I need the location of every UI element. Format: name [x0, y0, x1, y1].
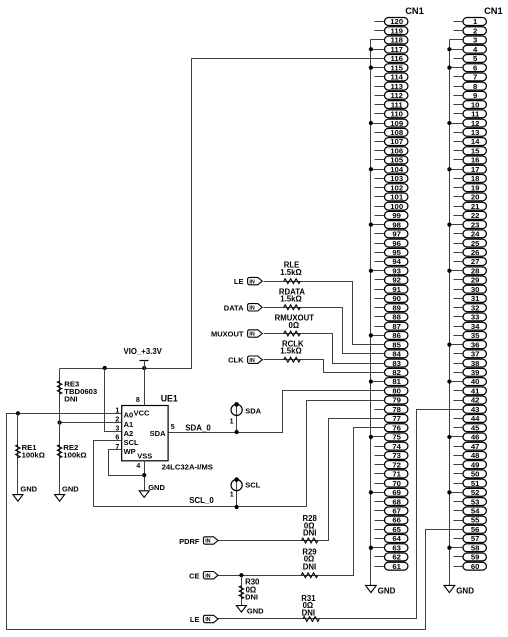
- svg-text:1: 1: [230, 492, 234, 499]
- svg-text:38: 38: [471, 359, 480, 368]
- svg-text:SCL: SCL: [124, 438, 139, 447]
- svg-text:100kΩ: 100kΩ: [22, 451, 45, 460]
- svg-text:CN1: CN1: [405, 6, 424, 16]
- svg-text:96: 96: [392, 239, 401, 248]
- svg-text:79: 79: [392, 396, 401, 405]
- svg-text:IN: IN: [205, 539, 210, 545]
- svg-text:MUXOUT: MUXOUT: [211, 329, 244, 338]
- svg-text:82: 82: [392, 368, 401, 377]
- svg-text:A2: A2: [124, 429, 134, 438]
- svg-text:UE1: UE1: [161, 393, 178, 403]
- svg-text:97: 97: [392, 230, 401, 239]
- svg-text:109: 109: [390, 119, 403, 128]
- svg-text:VIO_+3.3V: VIO_+3.3V: [124, 347, 163, 356]
- svg-text:2: 2: [473, 26, 477, 35]
- svg-text:24LC32A-I/MS: 24LC32A-I/MS: [162, 463, 213, 472]
- svg-text:DNI: DNI: [303, 529, 316, 538]
- svg-text:10: 10: [471, 100, 480, 109]
- svg-text:GND: GND: [247, 606, 264, 615]
- svg-text:98: 98: [392, 220, 401, 229]
- svg-text:6: 6: [473, 63, 477, 72]
- svg-text:64: 64: [392, 534, 401, 543]
- svg-text:23: 23: [471, 220, 480, 229]
- svg-text:112: 112: [390, 91, 402, 100]
- svg-text:78: 78: [392, 405, 401, 414]
- svg-text:50: 50: [471, 470, 480, 479]
- svg-text:90: 90: [392, 294, 401, 303]
- svg-text:84: 84: [392, 350, 401, 359]
- svg-text:72: 72: [392, 460, 401, 469]
- svg-text:IN: IN: [249, 279, 254, 285]
- svg-text:29: 29: [471, 276, 480, 285]
- svg-text:4: 4: [473, 45, 478, 54]
- svg-text:56: 56: [471, 525, 480, 534]
- svg-text:14: 14: [471, 137, 480, 146]
- svg-text:111: 111: [391, 100, 404, 109]
- svg-text:CN1: CN1: [484, 6, 503, 16]
- svg-text:LE: LE: [190, 615, 200, 624]
- svg-text:DNI: DNI: [302, 609, 315, 618]
- svg-text:34: 34: [471, 322, 480, 331]
- svg-text:89: 89: [392, 303, 401, 312]
- svg-text:1.5kΩ: 1.5kΩ: [280, 268, 301, 277]
- svg-text:66: 66: [392, 516, 401, 525]
- svg-text:55: 55: [471, 516, 480, 525]
- svg-text:85: 85: [392, 340, 401, 349]
- svg-text:104: 104: [390, 165, 404, 174]
- svg-text:114: 114: [390, 73, 403, 82]
- svg-text:113: 113: [390, 82, 402, 91]
- svg-text:A0: A0: [124, 411, 134, 420]
- svg-text:11: 11: [471, 110, 480, 119]
- svg-text:115: 115: [390, 63, 403, 72]
- svg-text:CE: CE: [189, 571, 199, 580]
- svg-text:GND: GND: [62, 485, 79, 494]
- svg-text:IN: IN: [249, 358, 254, 364]
- svg-text:119: 119: [390, 26, 402, 35]
- svg-text:101: 101: [390, 193, 404, 202]
- svg-text:16: 16: [471, 156, 480, 165]
- svg-text:116: 116: [390, 54, 402, 63]
- svg-text:59: 59: [471, 553, 480, 562]
- svg-text:92: 92: [392, 276, 401, 285]
- svg-text:99: 99: [392, 211, 401, 220]
- svg-text:93: 93: [392, 266, 401, 275]
- svg-text:28: 28: [471, 266, 480, 275]
- svg-text:77: 77: [392, 414, 401, 423]
- svg-text:5: 5: [473, 54, 478, 63]
- svg-text:15: 15: [471, 146, 480, 155]
- svg-text:IN: IN: [205, 573, 210, 579]
- svg-text:43: 43: [471, 405, 480, 414]
- svg-text:1.5kΩ: 1.5kΩ: [280, 295, 301, 304]
- svg-text:63: 63: [392, 543, 401, 552]
- svg-text:80: 80: [392, 386, 401, 395]
- svg-text:103: 103: [390, 174, 403, 183]
- svg-text:SCL: SCL: [245, 481, 260, 490]
- svg-text:DNI: DNI: [303, 562, 316, 571]
- svg-text:DATA: DATA: [224, 303, 244, 312]
- svg-text:87: 87: [392, 322, 401, 331]
- svg-text:8: 8: [473, 82, 478, 91]
- svg-text:26: 26: [471, 248, 480, 257]
- svg-text:4: 4: [136, 463, 140, 470]
- svg-text:88: 88: [392, 313, 401, 322]
- svg-text:118: 118: [390, 36, 403, 45]
- svg-text:61: 61: [392, 562, 401, 571]
- svg-text:46: 46: [471, 433, 480, 442]
- svg-text:58: 58: [471, 543, 480, 552]
- svg-text:3: 3: [473, 36, 477, 45]
- svg-text:54: 54: [471, 506, 480, 515]
- svg-text:48: 48: [471, 451, 480, 460]
- svg-text:100kΩ: 100kΩ: [63, 451, 86, 460]
- svg-text:40: 40: [471, 377, 480, 386]
- svg-text:110: 110: [390, 110, 402, 119]
- svg-text:65: 65: [392, 525, 401, 534]
- svg-text:91: 91: [392, 285, 401, 294]
- svg-text:32: 32: [471, 303, 480, 312]
- svg-text:57: 57: [471, 534, 480, 543]
- svg-text:WP: WP: [124, 447, 136, 456]
- svg-text:45: 45: [471, 423, 480, 432]
- svg-text:27: 27: [471, 257, 480, 266]
- svg-text:42: 42: [471, 396, 480, 405]
- svg-text:SDA: SDA: [150, 429, 166, 438]
- svg-text:107: 107: [390, 137, 403, 146]
- svg-text:53: 53: [471, 497, 480, 506]
- svg-text:95: 95: [392, 248, 401, 257]
- svg-text:35: 35: [471, 331, 480, 340]
- svg-text:33: 33: [471, 313, 480, 322]
- svg-text:105: 105: [390, 156, 404, 165]
- svg-text:70: 70: [392, 479, 401, 488]
- svg-text:52: 52: [471, 488, 480, 497]
- svg-text:81: 81: [392, 377, 401, 386]
- svg-text:83: 83: [392, 359, 401, 368]
- svg-text:94: 94: [392, 257, 401, 266]
- svg-text:GND: GND: [20, 485, 37, 494]
- svg-text:73: 73: [392, 451, 401, 460]
- svg-text:62: 62: [392, 553, 401, 562]
- svg-text:SDA: SDA: [245, 406, 261, 415]
- svg-text:PDRF: PDRF: [179, 537, 200, 546]
- svg-text:102: 102: [390, 183, 403, 192]
- svg-text:41: 41: [471, 386, 480, 395]
- svg-text:12: 12: [471, 119, 480, 128]
- svg-text:120: 120: [390, 17, 403, 26]
- svg-text:20: 20: [471, 193, 480, 202]
- svg-text:100: 100: [390, 202, 403, 211]
- svg-text:CLK: CLK: [228, 355, 244, 364]
- svg-text:51: 51: [471, 479, 480, 488]
- svg-text:SCL_0: SCL_0: [189, 496, 214, 505]
- svg-text:75: 75: [392, 433, 401, 442]
- svg-text:1: 1: [230, 419, 234, 426]
- svg-text:74: 74: [392, 442, 401, 451]
- svg-text:1: 1: [473, 17, 478, 26]
- svg-text:86: 86: [392, 331, 401, 340]
- svg-text:76: 76: [392, 423, 401, 432]
- svg-text:25: 25: [471, 239, 480, 248]
- svg-text:GND: GND: [148, 483, 165, 492]
- svg-text:24: 24: [471, 230, 480, 239]
- svg-text:DNI: DNI: [64, 394, 77, 403]
- svg-text:1.5kΩ: 1.5kΩ: [280, 347, 301, 356]
- svg-text:9: 9: [473, 91, 477, 100]
- svg-text:67: 67: [392, 506, 401, 515]
- svg-text:17: 17: [471, 165, 480, 174]
- svg-text:18: 18: [471, 174, 480, 183]
- svg-text:VCC: VCC: [134, 408, 150, 417]
- svg-text:47: 47: [471, 442, 480, 451]
- svg-text:DNI: DNI: [245, 593, 258, 602]
- svg-text:30: 30: [471, 285, 480, 294]
- svg-text:IN: IN: [249, 306, 254, 312]
- svg-text:13: 13: [471, 128, 480, 137]
- svg-text:IN: IN: [205, 617, 210, 623]
- svg-text:19: 19: [471, 183, 480, 192]
- svg-text:SDA_0: SDA_0: [185, 424, 211, 433]
- svg-text:69: 69: [392, 488, 401, 497]
- svg-text:36: 36: [471, 340, 480, 349]
- svg-text:60: 60: [471, 562, 480, 571]
- svg-text:44: 44: [471, 414, 480, 423]
- svg-text:31: 31: [471, 294, 480, 303]
- svg-text:22: 22: [471, 211, 480, 220]
- svg-text:7: 7: [473, 73, 477, 82]
- svg-text:LE: LE: [234, 277, 244, 286]
- svg-text:106: 106: [390, 146, 403, 155]
- svg-text:71: 71: [392, 470, 401, 479]
- svg-text:IN: IN: [249, 332, 254, 338]
- svg-text:108: 108: [390, 128, 404, 137]
- svg-text:VSS: VSS: [137, 451, 152, 460]
- svg-text:A1: A1: [124, 420, 134, 429]
- svg-text:117: 117: [390, 45, 402, 54]
- svg-text:GND: GND: [378, 587, 396, 596]
- svg-text:37: 37: [471, 350, 480, 359]
- svg-text:0Ω: 0Ω: [289, 321, 300, 330]
- svg-text:39: 39: [471, 368, 480, 377]
- svg-text:68: 68: [392, 497, 401, 506]
- svg-text:49: 49: [471, 460, 480, 469]
- svg-text:8: 8: [136, 397, 140, 404]
- svg-text:21: 21: [471, 202, 480, 211]
- svg-text:5: 5: [171, 424, 175, 431]
- svg-text:GND: GND: [456, 587, 474, 596]
